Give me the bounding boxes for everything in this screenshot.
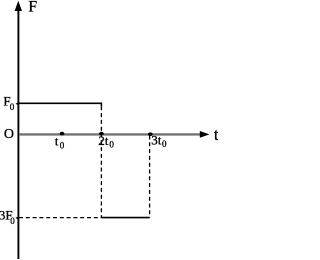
svg-text:2t: 2t <box>98 133 109 148</box>
node dot at 3t0 on axis <box>148 132 153 136</box>
y-axis F (vertical axis line) <box>17 9 19 259</box>
node dot at 2t0 on axis <box>99 132 104 136</box>
x-axis arrowhead (right) <box>200 131 210 138</box>
svg-text:3t: 3t <box>151 132 162 147</box>
svg-text:0: 0 <box>10 216 15 226</box>
dashed guide vertical at 2t0 <box>100 106 102 217</box>
step segment F=F0 for 0..2t0 (solid line with corner stub) <box>19 103 101 106</box>
svg-text:0: 0 <box>60 140 65 150</box>
dashed guide vertical at 3t0 <box>149 136 151 218</box>
svg-text:t: t <box>214 125 218 144</box>
svg-text:0: 0 <box>10 102 15 112</box>
node dot at t0 on axis <box>60 132 65 136</box>
tick marker at -3F0 on y-axis <box>15 216 18 220</box>
x-axis t (horizontal axis line, gray) <box>19 133 201 135</box>
tick marker at F0 on y-axis <box>16 102 19 106</box>
step segment F=-3F0 for 2t0..3t0 (solid) <box>101 217 149 219</box>
svg-text:O: O <box>4 127 14 142</box>
y-axis arrowhead (top) <box>15 1 22 11</box>
svg-text:0: 0 <box>109 140 114 150</box>
svg-text:0: 0 <box>162 139 167 149</box>
svg-text:t: t <box>55 133 59 148</box>
dashed guide horizontal at -3F0 level <box>19 217 101 219</box>
svg-text:F: F <box>28 0 37 16</box>
